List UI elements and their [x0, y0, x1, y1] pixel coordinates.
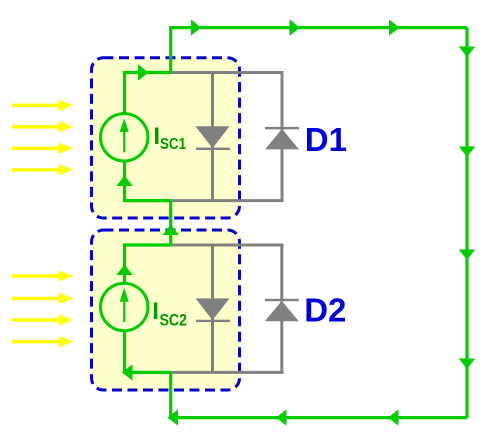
svg-text:SC1: SC1 — [160, 136, 186, 153]
arrow right on top rail 2 — [290, 19, 301, 35]
wire green cell1 top — [125, 73, 171, 114]
svg-text:SC2: SC2 — [160, 311, 188, 329]
svg-text:D1: D1 — [305, 121, 347, 158]
wire gray top cell2 — [171, 244, 284, 247]
arrow up below source cell1 — [116, 176, 132, 187]
arrow down on right rail 1 — [459, 47, 475, 58]
arrow right on cell1 top wire — [138, 64, 149, 80]
svg-text:I: I — [152, 298, 159, 325]
wire gray internal diode branch cell2 — [211, 245, 214, 372]
arrow right on top rail 3 — [389, 19, 400, 35]
wire green bottom rail — [171, 416, 467, 419]
arrow down on right rail 2 — [459, 147, 475, 158]
current source ISC2 (circle) — [101, 283, 148, 330]
arrow left on bottom rail 2 — [276, 409, 287, 425]
solar cell 2 enclosure (dashed box) — [92, 230, 240, 390]
wire gray bottom cell2 — [171, 371, 284, 374]
diode D1 (bypass) — [265, 127, 299, 149]
sun ray arrows cell1 — [12, 100, 74, 176]
wire gray bypass branch D2 — [280, 245, 283, 372]
sun ray arrows cell2 — [12, 270, 74, 347]
svg-text:D2: D2 — [304, 291, 346, 328]
wire gray bypass branch D1 — [281, 73, 284, 201]
arrow inside source 2 — [120, 288, 129, 322]
arrow left on bottom rail 3 — [388, 409, 399, 425]
arrow up on riser between cells — [163, 225, 179, 236]
arrow right on top rail 1 — [191, 19, 202, 35]
arrow left on cell2 bottom wire — [122, 364, 133, 380]
arrow down on right rail 4 — [459, 359, 475, 370]
wire green cell2 top — [125, 245, 171, 284]
arrow up above source cell2 — [116, 265, 132, 276]
wire gray internal diode branch cell1 — [211, 73, 214, 201]
solar cell 1 enclosure (dashed box) — [92, 58, 240, 218]
wire green riser between cells — [169, 201, 172, 245]
wire green cell1 bottom — [125, 161, 171, 201]
arrow down on right rail 3 — [459, 250, 475, 261]
wire green right rail — [465, 28, 468, 418]
diode D2 (bypass) — [265, 299, 299, 322]
arrow inside source 1 — [120, 118, 129, 152]
current source ISC1 (circle) — [101, 114, 148, 161]
arrow left on bottom rail 1 — [168, 409, 179, 425]
wire gray bottom cell1 — [171, 199, 284, 202]
label ISC1 — [153, 123, 186, 153]
wire green riser bottom (box2 to bottom rail) — [169, 372, 172, 417]
diode internal cell1 — [196, 126, 231, 150]
label ISC2 — [152, 298, 187, 329]
wire gray top cell1 — [171, 71, 284, 74]
diode internal cell2 — [196, 298, 231, 322]
wire green top rail — [171, 28, 467, 73]
wire green cell2 bottom — [125, 330, 171, 372]
